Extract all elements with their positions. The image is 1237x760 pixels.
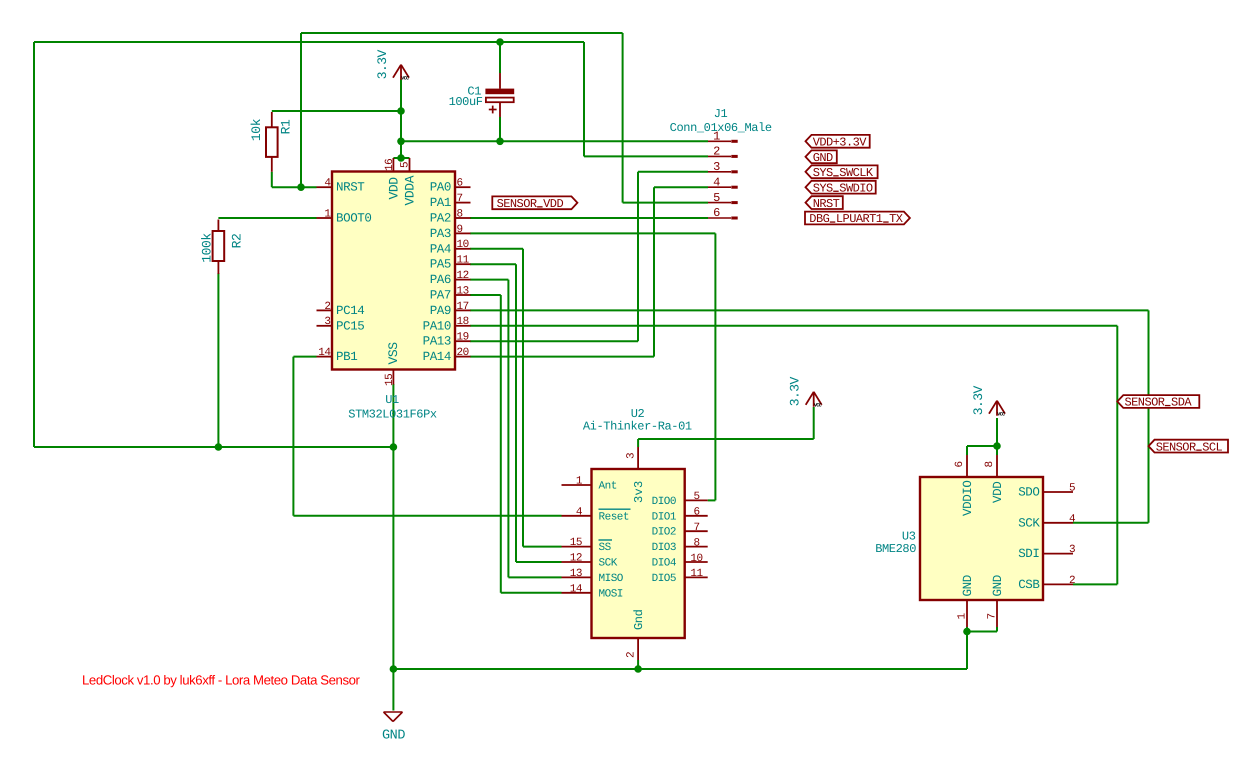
svg-text:PA3: PA3 (430, 227, 451, 241)
svg-text:15: 15 (570, 537, 582, 549)
svg-text:Reset: Reset (599, 511, 630, 523)
svg-text:PA2: PA2 (430, 212, 451, 226)
svg-text:9: 9 (457, 224, 463, 236)
svg-text:R1: R1 (278, 119, 293, 134)
svg-text:5: 5 (693, 491, 699, 503)
svg-text:PA6: PA6 (430, 273, 451, 287)
svg-text:2: 2 (626, 652, 638, 658)
svg-text:20: 20 (457, 347, 469, 359)
svg-text:PA14: PA14 (423, 350, 451, 364)
svg-text:3v3: 3v3 (632, 480, 646, 503)
svg-text:SENSOR SCL: SENSOR SCL (1156, 440, 1223, 454)
svg-text:5: 5 (400, 162, 412, 168)
svg-text:2: 2 (1069, 575, 1075, 587)
svg-text:17: 17 (457, 301, 469, 313)
svg-text:SYS SWCLK: SYS SWCLK (813, 166, 874, 180)
svg-text:GND: GND (991, 575, 1005, 596)
svg-text:SENSOR VDD: SENSOR VDD (497, 197, 564, 211)
svg-text:6: 6 (713, 206, 720, 220)
svg-text:PA10: PA10 (423, 319, 451, 333)
svg-text:18: 18 (457, 316, 469, 328)
svg-text:3: 3 (1069, 544, 1075, 556)
svg-text:3.3V: 3.3V (788, 377, 803, 407)
svg-text:BME280: BME280 (875, 542, 916, 556)
svg-text:VSS: VSS (386, 342, 401, 365)
svg-text:MISO: MISO (599, 573, 624, 585)
svg-text:VDD: VDD (991, 482, 1005, 503)
svg-text:VDD: VDD (386, 177, 401, 200)
svg-text:11: 11 (690, 568, 703, 580)
svg-text:7: 7 (457, 193, 463, 205)
svg-text:Gnd: Gnd (632, 609, 646, 630)
svg-text:GND: GND (382, 729, 405, 744)
svg-text:SENSOR SDA: SENSOR SDA (1125, 396, 1193, 410)
svg-text:14: 14 (318, 347, 331, 359)
svg-text:PC15: PC15 (336, 319, 364, 333)
svg-text:6: 6 (954, 461, 966, 467)
svg-text:DIO5: DIO5 (652, 573, 676, 585)
svg-text:3: 3 (324, 316, 330, 328)
svg-text:100uF: 100uF (449, 95, 483, 109)
svg-text:DIO2: DIO2 (652, 527, 676, 539)
svg-text:4: 4 (1069, 513, 1076, 525)
svg-text:6: 6 (693, 507, 699, 519)
svg-text:PA13: PA13 (423, 335, 451, 349)
svg-text:13: 13 (570, 568, 582, 580)
svg-text:DIO4: DIO4 (652, 558, 677, 570)
svg-text:PB1: PB1 (336, 350, 357, 364)
svg-text:VDDIO: VDDIO (961, 480, 975, 516)
svg-text:13: 13 (457, 285, 469, 297)
svg-text:10: 10 (690, 553, 702, 565)
svg-text:VDDA: VDDA (402, 175, 417, 205)
svg-text:3.3V: 3.3V (971, 385, 986, 415)
svg-text:SCK: SCK (1018, 516, 1040, 530)
svg-text:2: 2 (713, 145, 720, 159)
svg-text:1: 1 (576, 476, 583, 488)
svg-text:U1: U1 (385, 393, 399, 407)
svg-text:SYS SWDIO: SYS SWDIO (813, 181, 873, 195)
svg-text:8: 8 (693, 537, 699, 549)
svg-text:PA0: PA0 (430, 181, 451, 195)
svg-text:CSB: CSB (1018, 578, 1040, 592)
svg-text:STM32L031F6Px: STM32L031F6Px (348, 407, 437, 421)
svg-text:7: 7 (693, 522, 699, 534)
svg-text:12: 12 (570, 553, 582, 565)
svg-text:DIO3: DIO3 (652, 542, 676, 554)
svg-text:PA7: PA7 (430, 289, 451, 303)
svg-text:DBG LPUART1 TX: DBG LPUART1 TX (809, 212, 902, 226)
svg-text:NRST: NRST (813, 197, 840, 211)
svg-text:10: 10 (457, 239, 469, 251)
svg-text:4: 4 (713, 175, 720, 189)
svg-text:1: 1 (324, 208, 331, 220)
svg-text:8: 8 (984, 461, 996, 467)
svg-text:5: 5 (713, 191, 720, 205)
svg-text:6: 6 (457, 178, 463, 190)
svg-text:PA5: PA5 (430, 258, 451, 272)
svg-text:GND: GND (961, 575, 975, 596)
svg-text:Ai-Thinker-Ra-01: Ai-Thinker-Ra-01 (583, 420, 692, 434)
svg-text:SDO: SDO (1018, 486, 1039, 500)
svg-text:GND: GND (813, 151, 833, 165)
svg-text:VDD+3.3V: VDD+3.3V (813, 136, 868, 150)
svg-text:8: 8 (457, 208, 463, 220)
svg-text:SCK: SCK (599, 558, 618, 570)
svg-text:VCC: VCC (401, 75, 409, 81)
svg-text:12: 12 (457, 270, 469, 282)
svg-text:5: 5 (1069, 483, 1075, 495)
svg-text:BOOT0: BOOT0 (336, 212, 372, 226)
svg-text:LedClock v1.0 by luk6xff - Lor: LedClock v1.0 by luk6xff - Lora Meteo Da… (82, 673, 361, 688)
svg-text:DIO1: DIO1 (652, 511, 677, 523)
svg-text:NRST: NRST (336, 181, 365, 195)
svg-text:1: 1 (957, 613, 969, 620)
svg-text:SDI: SDI (1018, 547, 1039, 561)
svg-text:Ant: Ant (599, 481, 617, 493)
svg-text:14: 14 (570, 583, 583, 595)
svg-text:SS: SS (599, 542, 612, 554)
svg-text:3: 3 (713, 160, 720, 174)
svg-text:15: 15 (384, 374, 396, 386)
svg-text:MOSI: MOSI (599, 588, 623, 600)
svg-text:3.3V: 3.3V (375, 49, 390, 79)
svg-text:4: 4 (324, 178, 331, 190)
svg-text:J1: J1 (714, 107, 728, 121)
svg-text:10k: 10k (249, 118, 264, 141)
svg-text:PA9: PA9 (430, 304, 451, 318)
svg-text:7: 7 (987, 613, 999, 619)
svg-text:2: 2 (324, 301, 330, 313)
svg-text:PC14: PC14 (336, 304, 364, 318)
svg-text:100k: 100k (199, 233, 214, 263)
svg-text:R2: R2 (230, 234, 245, 249)
svg-text:VCC: VCC (997, 411, 1005, 417)
svg-text:11: 11 (457, 255, 470, 267)
svg-text:19: 19 (457, 332, 469, 344)
svg-text:VCC: VCC (814, 403, 822, 409)
svg-text:3: 3 (626, 453, 638, 459)
svg-text:PA4: PA4 (430, 242, 451, 256)
svg-text:PA1: PA1 (430, 196, 451, 210)
svg-text:DIO0: DIO0 (652, 496, 676, 508)
svg-text:Conn_01x06_Male: Conn_01x06_Male (670, 121, 772, 135)
svg-text:16: 16 (384, 159, 396, 171)
svg-text:4: 4 (576, 506, 583, 518)
